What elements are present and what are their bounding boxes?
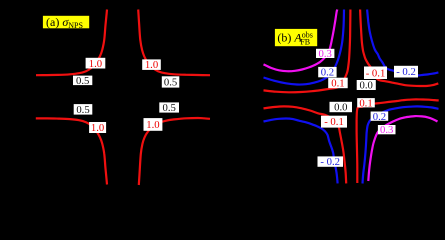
svg-text:- 0.1: - 0.1 (366, 67, 386, 79)
svg-text:0.2: 0.2 (373, 111, 386, 123)
label a-TR 1.0 (142, 59, 161, 71)
contour b-TR A=-0.1 red (360, 10, 438, 87)
svg-text:0.0: 0.0 (334, 102, 347, 114)
svg-text:0.3: 0.3 (380, 124, 393, 136)
contour b-BL A=-0.1 red (264, 106, 347, 183)
contour b-BR A=0.1 red (357, 99, 439, 183)
contour a-BR sigma lower-right (139, 118, 210, 185)
title panel (b) (275, 29, 317, 47)
label b-TR -0.2 (394, 66, 418, 78)
svg-text:- 0.1: - 0.1 (324, 116, 344, 128)
svg-text:0.1: 0.1 (331, 78, 344, 90)
label a-TL 0.5 (73, 75, 92, 87)
contour a-BL sigma lower-left (36, 118, 107, 184)
contour b-TR A=-0.2 blue (367, 10, 438, 76)
label b-BL -0.2 (318, 156, 344, 168)
svg-text:1.0: 1.0 (89, 58, 102, 70)
label b-BL -0.1 (321, 116, 347, 129)
contour b-BR A=0.2 blue (363, 106, 439, 183)
svg-text:- 0.2: - 0.2 (396, 66, 416, 78)
contour b-BR A=0.3 magenta (368, 116, 437, 181)
label b-TL 0.1 (328, 78, 348, 90)
title panel (a) (43, 15, 89, 30)
svg-text:0.5: 0.5 (164, 77, 177, 89)
svg-text:0.3: 0.3 (319, 48, 332, 60)
svg-text:1.0: 1.0 (145, 59, 158, 71)
svg-text:0.1: 0.1 (359, 97, 372, 109)
contour b-TL A=0.2 blue (264, 10, 345, 85)
label a-TL 1.0 (86, 58, 106, 70)
label a-BL 0.5 (74, 104, 93, 116)
label b-BR 0.3 (378, 124, 396, 136)
label b-BL 0.0 (330, 102, 353, 114)
label b-TL 0.2 (318, 67, 336, 79)
contour b-BL A=-0.2 blue (264, 119, 338, 184)
label a-BR 0.5 (159, 102, 179, 114)
svg-text:0.5: 0.5 (76, 75, 89, 87)
label a-BL 1.0 (89, 122, 106, 134)
label b-BR 0.1 (357, 97, 375, 109)
label a-TR 0.5 (162, 76, 180, 88)
contour b-TL A=0.1 red (264, 10, 351, 93)
svg-text:0.5: 0.5 (163, 102, 176, 114)
contour a-TL sigma upper-left (36, 10, 107, 76)
contour a-TR sigma upper-right (138, 10, 210, 76)
contour b-TL A=0.3 magenta (264, 10, 338, 72)
svg-text:0.5: 0.5 (76, 104, 89, 116)
svg-text:(b) AobsFB: (b) AobsFB (277, 31, 312, 47)
label b-TR -0.1 (364, 67, 387, 80)
svg-text:1.0: 1.0 (91, 122, 104, 134)
svg-text:- 0.2: - 0.2 (320, 156, 340, 168)
svg-text:1.0: 1.0 (146, 119, 159, 131)
label a-BR 1.0 (144, 118, 163, 131)
label b-TR 0.0 (357, 80, 376, 92)
label b-BR 0.2 (371, 111, 389, 123)
label b-TL 0.3 (316, 48, 334, 60)
svg-text:0.0: 0.0 (360, 80, 373, 92)
